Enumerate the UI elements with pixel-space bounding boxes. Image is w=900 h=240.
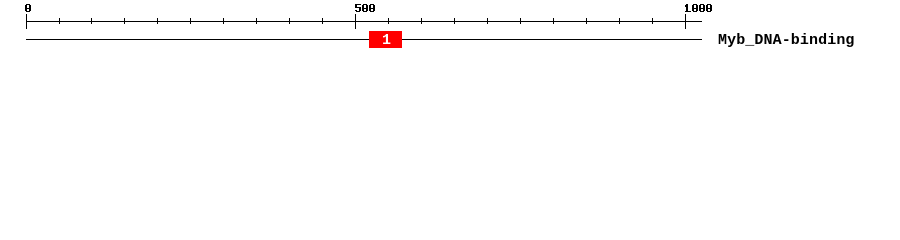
ruler line [26,21,702,22]
minor tick 150 [124,18,125,24]
ruler label 1000 [685,4,712,12]
ruler label 500 [355,4,375,12]
domain name Myb_DNA-binding [718,36,855,46]
minor tick 900 [619,18,620,24]
major tick 500 [355,14,356,29]
minor tick 700 [487,18,488,24]
minor tick 850 [586,18,587,24]
minor tick 950 [652,18,653,24]
minor tick 800 [553,18,554,24]
minor tick 300 [223,18,224,24]
minor tick 350 [256,18,257,24]
minor tick 400 [289,18,290,24]
minor tick 50 [59,18,60,24]
major tick 1000 [685,14,686,29]
minor tick 750 [520,18,521,24]
minor tick 200 [157,18,158,24]
minor tick 550 [388,18,389,24]
domain box 1 [369,31,402,48]
ruler label 0 [25,4,31,12]
sequence line [26,39,702,40]
major tick 0 [26,14,27,29]
minor tick 600 [421,18,422,24]
minor tick 250 [190,18,191,24]
minor tick 100 [91,18,92,24]
minor tick 650 [454,18,455,24]
minor tick 450 [322,18,323,24]
domain box label 1 [382,36,391,46]
